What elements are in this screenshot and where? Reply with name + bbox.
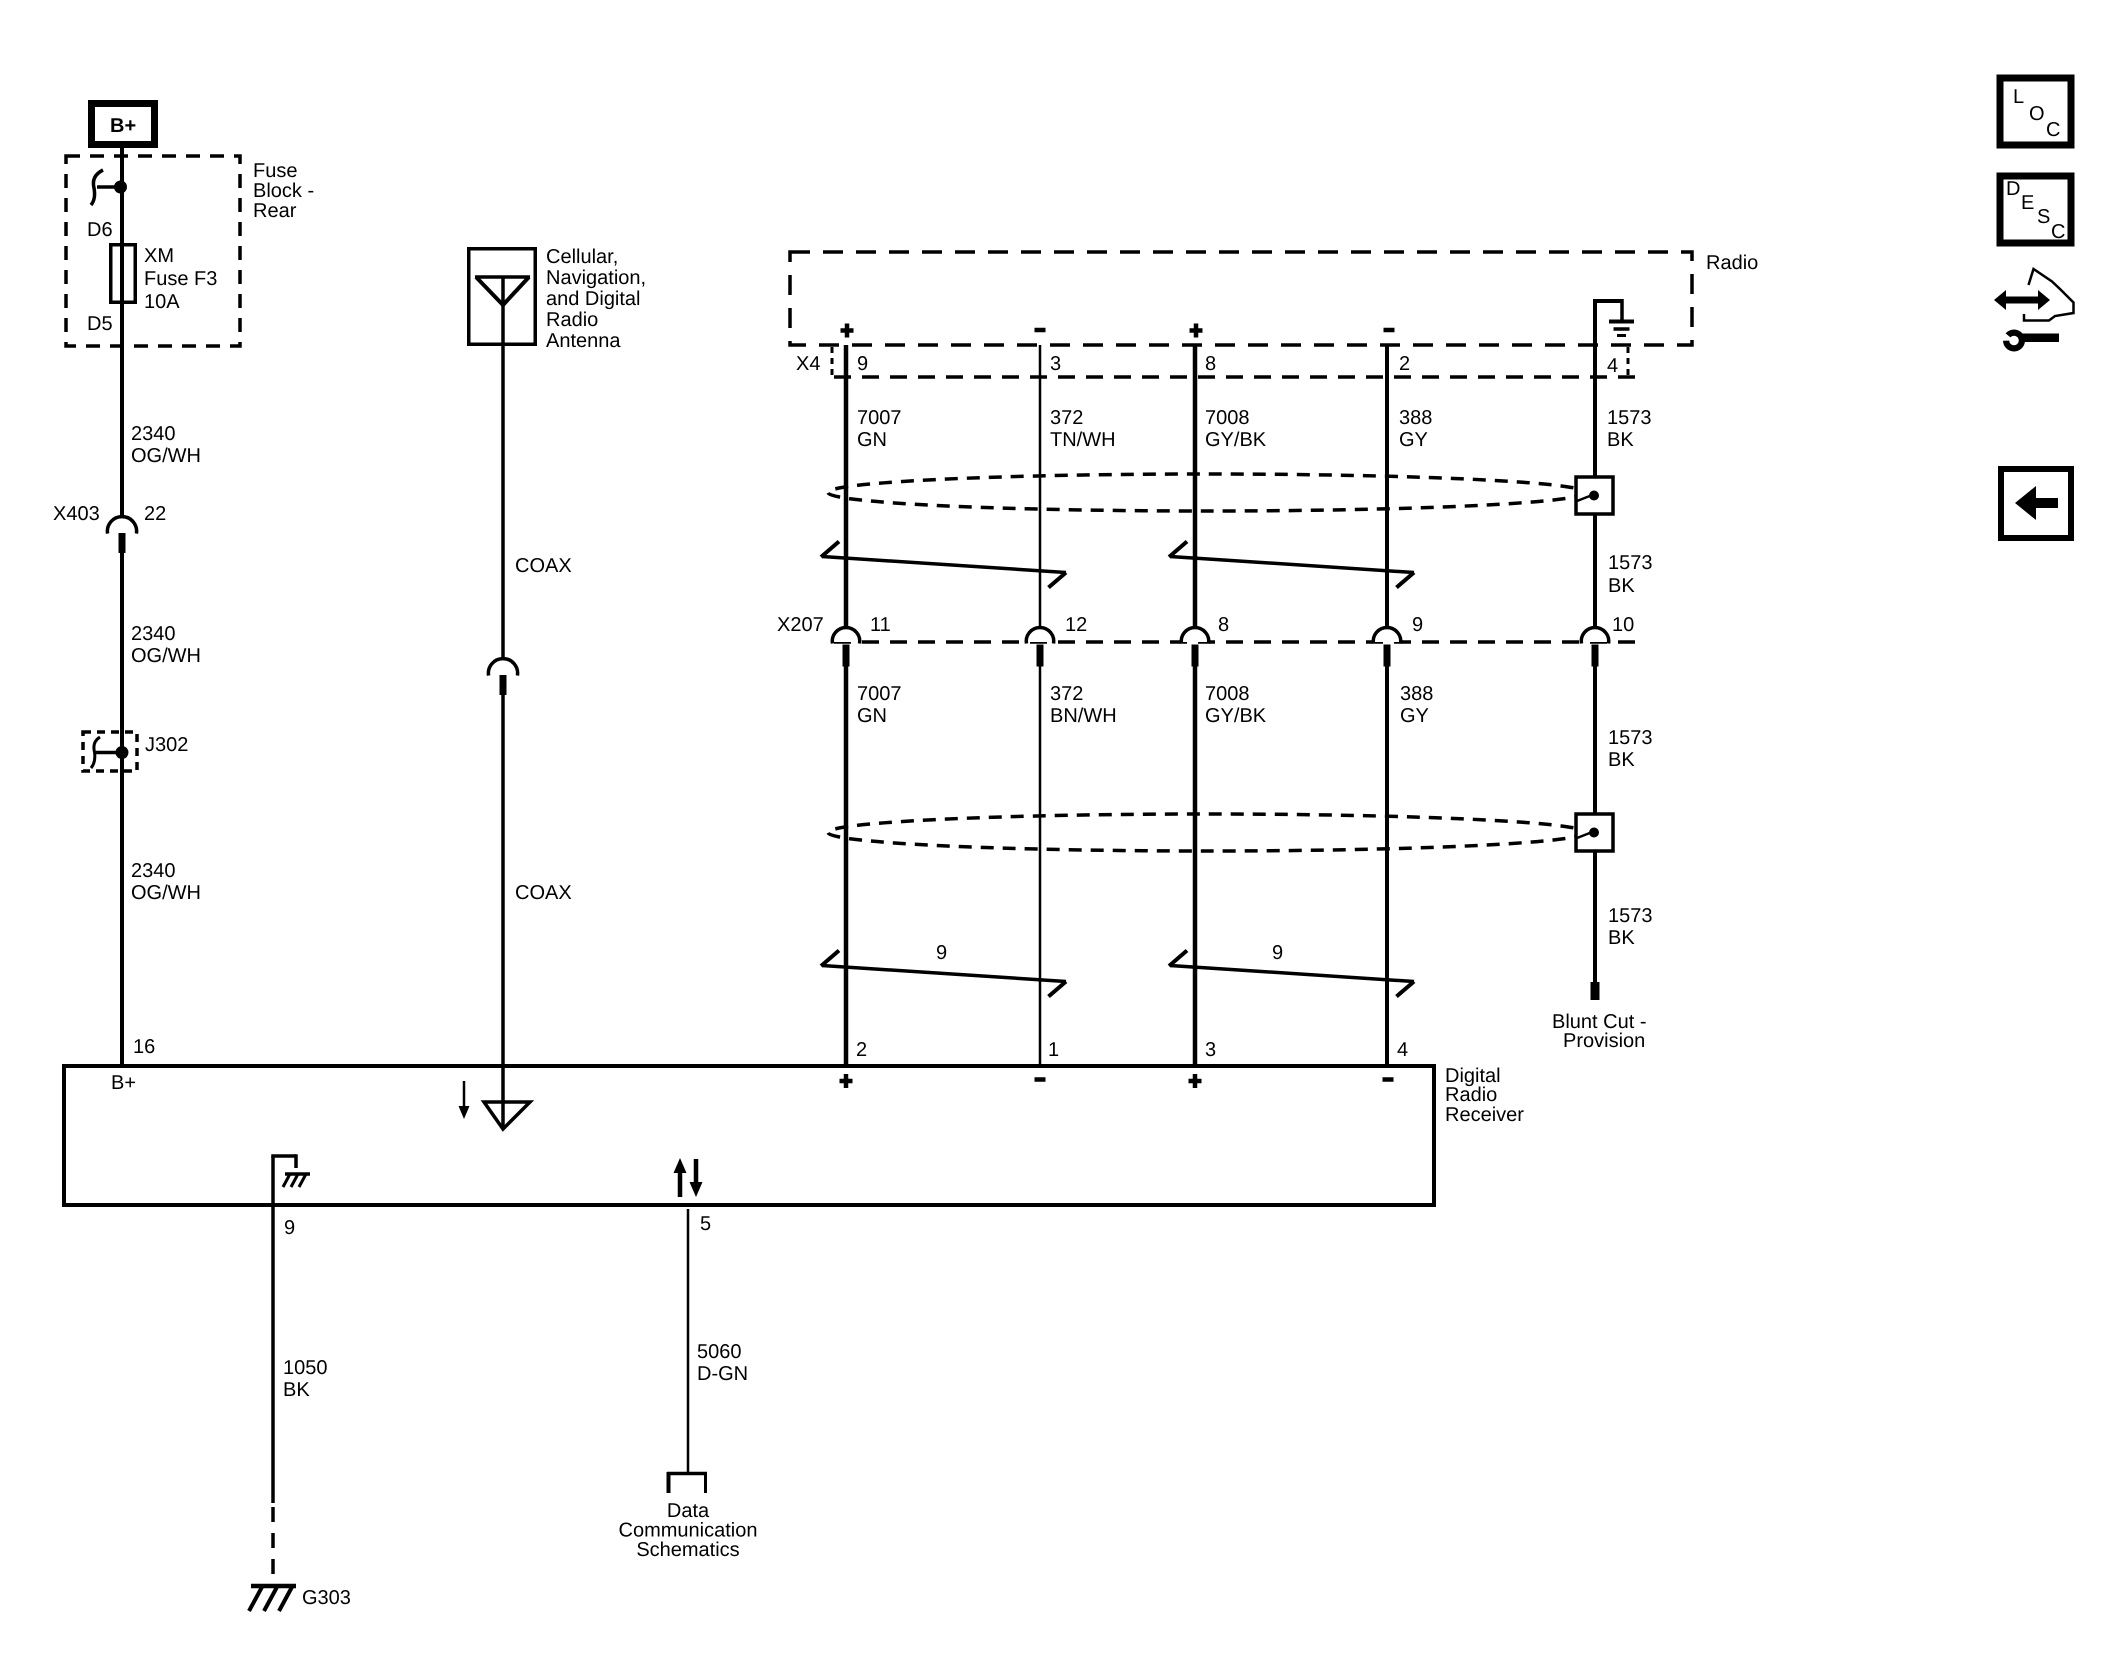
svg-text:GN: GN bbox=[857, 705, 887, 727]
svg-text:D: D bbox=[2006, 178, 2020, 200]
svg-text:16: 16 bbox=[133, 1036, 155, 1058]
svg-text:COAX: COAX bbox=[515, 882, 572, 904]
svg-text:Antenna: Antenna bbox=[546, 330, 621, 352]
svg-text:Navigation,: Navigation, bbox=[546, 267, 646, 289]
svg-text:2340: 2340 bbox=[131, 860, 176, 882]
svg-text:Block -: Block - bbox=[253, 180, 314, 202]
svg-text:9: 9 bbox=[1272, 942, 1283, 964]
svg-text:2340: 2340 bbox=[131, 623, 176, 645]
svg-text:8: 8 bbox=[1218, 614, 1229, 636]
svg-text:8: 8 bbox=[1205, 353, 1216, 375]
svg-text:B+: B+ bbox=[111, 1072, 136, 1094]
svg-text:9: 9 bbox=[936, 942, 947, 964]
svg-text:G303: G303 bbox=[302, 1587, 351, 1609]
svg-text:10A: 10A bbox=[144, 291, 180, 313]
svg-text:12: 12 bbox=[1065, 614, 1087, 636]
svg-text:OG/WH: OG/WH bbox=[131, 645, 201, 667]
svg-text:388: 388 bbox=[1399, 407, 1432, 429]
svg-text:C: C bbox=[2051, 221, 2065, 243]
svg-text:X4: X4 bbox=[796, 353, 820, 375]
svg-text:7008: 7008 bbox=[1205, 407, 1250, 429]
svg-text:BN/WH: BN/WH bbox=[1050, 705, 1117, 727]
svg-text:22: 22 bbox=[144, 503, 166, 525]
svg-text:Fuse: Fuse bbox=[253, 160, 297, 182]
svg-text:Radio: Radio bbox=[1706, 252, 1758, 274]
svg-text:2: 2 bbox=[856, 1039, 867, 1061]
svg-text:S: S bbox=[2037, 206, 2050, 228]
svg-text:5060: 5060 bbox=[697, 1341, 742, 1363]
svg-text:J302: J302 bbox=[145, 734, 188, 756]
svg-text:OG/WH: OG/WH bbox=[131, 445, 201, 467]
svg-text:TN/WH: TN/WH bbox=[1050, 429, 1116, 451]
svg-text:XM: XM bbox=[144, 245, 174, 267]
svg-text:C: C bbox=[2046, 119, 2060, 141]
svg-text:372: 372 bbox=[1050, 683, 1083, 705]
svg-text:Fuse F3: Fuse F3 bbox=[144, 268, 217, 290]
svg-text:E: E bbox=[2021, 192, 2034, 214]
svg-text:372: 372 bbox=[1050, 407, 1083, 429]
svg-text:BK: BK bbox=[283, 1379, 310, 1401]
svg-text:BK: BK bbox=[1608, 749, 1635, 771]
svg-text:GN: GN bbox=[857, 429, 887, 451]
svg-text:OG/WH: OG/WH bbox=[131, 882, 201, 904]
svg-text:GY/BK: GY/BK bbox=[1205, 429, 1267, 451]
svg-text:7007: 7007 bbox=[857, 407, 902, 429]
svg-text:7007: 7007 bbox=[857, 683, 902, 705]
svg-text:1: 1 bbox=[1048, 1039, 1059, 1061]
svg-text:2: 2 bbox=[1399, 353, 1410, 375]
svg-text:X403: X403 bbox=[53, 503, 100, 525]
svg-text:Receiver: Receiver bbox=[1445, 1104, 1524, 1126]
svg-text:1573: 1573 bbox=[1608, 727, 1653, 749]
svg-text:2340: 2340 bbox=[131, 423, 176, 445]
svg-text:1050: 1050 bbox=[283, 1357, 328, 1379]
svg-text:and Digital: and Digital bbox=[546, 288, 641, 310]
svg-text:D5: D5 bbox=[87, 313, 113, 335]
svg-text:Radio: Radio bbox=[546, 309, 598, 331]
svg-text:3: 3 bbox=[1050, 353, 1061, 375]
svg-text:5: 5 bbox=[700, 1213, 711, 1235]
svg-text:9: 9 bbox=[857, 353, 868, 375]
svg-text:1573: 1573 bbox=[1608, 905, 1653, 927]
svg-text:D-GN: D-GN bbox=[697, 1363, 748, 1385]
svg-text:L: L bbox=[2013, 86, 2024, 108]
svg-text:GY: GY bbox=[1399, 429, 1428, 451]
svg-text:7008: 7008 bbox=[1205, 683, 1250, 705]
svg-text:X207: X207 bbox=[777, 614, 824, 636]
svg-text:GY: GY bbox=[1400, 705, 1429, 727]
svg-text:Cellular,: Cellular, bbox=[546, 246, 618, 268]
svg-text:D6: D6 bbox=[87, 219, 113, 241]
svg-text:3: 3 bbox=[1205, 1039, 1216, 1061]
svg-text:BK: BK bbox=[1608, 927, 1635, 949]
svg-text:9: 9 bbox=[1412, 614, 1423, 636]
svg-text:Rear: Rear bbox=[253, 200, 297, 222]
svg-text:O: O bbox=[2029, 103, 2045, 125]
svg-text:COAX: COAX bbox=[515, 555, 572, 577]
svg-text:10: 10 bbox=[1612, 614, 1634, 636]
svg-text:Radio: Radio bbox=[1445, 1084, 1497, 1106]
svg-text:388: 388 bbox=[1400, 683, 1433, 705]
svg-text:B+: B+ bbox=[110, 115, 136, 137]
svg-text:GY/BK: GY/BK bbox=[1205, 705, 1267, 727]
svg-text:1573: 1573 bbox=[1607, 407, 1652, 429]
svg-text:4: 4 bbox=[1397, 1039, 1408, 1061]
svg-text:BK: BK bbox=[1607, 429, 1634, 451]
svg-text:4: 4 bbox=[1607, 355, 1618, 377]
svg-text:9: 9 bbox=[284, 1217, 295, 1239]
svg-text:Provision: Provision bbox=[1563, 1030, 1645, 1052]
svg-text:1573: 1573 bbox=[1608, 552, 1653, 574]
svg-text:Schematics: Schematics bbox=[636, 1539, 739, 1561]
svg-text:11: 11 bbox=[870, 614, 891, 636]
svg-text:BK: BK bbox=[1608, 575, 1635, 597]
